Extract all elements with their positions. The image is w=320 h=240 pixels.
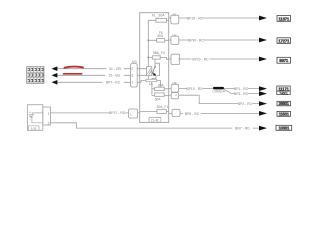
wire BP3-RC branch <box>224 89 259 93</box>
wire BP19-RC row4 <box>179 88 214 90</box>
wire <box>137 69 146 83</box>
arrow out row8 <box>259 126 267 131</box>
svg-text:NE: NE <box>172 33 176 37</box>
svg-text:11831: 11831 <box>279 112 290 117</box>
svg-text:+: + <box>29 111 31 115</box>
svg-text:-: - <box>29 117 30 121</box>
dest box 1727 <box>277 38 291 44</box>
battery G1 plates <box>29 114 34 116</box>
arrow in 1 <box>52 66 58 71</box>
arrow out row2 <box>259 38 267 43</box>
dest box 1117 <box>277 86 290 91</box>
wire <box>157 81 161 87</box>
wire BN7-RD ground run <box>50 123 259 128</box>
arrow out row3 <box>259 57 267 62</box>
svg-text:BP3 - RC: BP3 - RC <box>234 92 249 96</box>
svg-text:1: 1 <box>48 112 50 116</box>
svg-text:FL_30A: FL_30A <box>152 13 165 17</box>
arrow in 2 <box>52 73 58 78</box>
wire bus <box>147 20 149 79</box>
fuse box U1 outline <box>140 13 169 123</box>
arrow out row5 <box>259 91 267 96</box>
fuse F3 <box>155 93 165 96</box>
arrow out row1 <box>259 16 267 21</box>
fuse F4 <box>152 56 160 59</box>
svg-text:3: 3 <box>131 74 133 78</box>
arrow in 3 <box>52 80 58 85</box>
relay K1 arm <box>152 68 155 75</box>
wire battery internal <box>32 113 43 123</box>
svg-text:1: 1 <box>130 113 132 117</box>
pin bracket 1 battery <box>129 109 140 118</box>
wire BP1-RC <box>224 88 259 90</box>
wire BP8-RC row7 <box>180 112 259 114</box>
svg-text:BPW - RC: BPW - RC <box>188 38 204 42</box>
pin bracket 6E row1 <box>169 13 179 24</box>
dest box 1137 <box>277 16 291 22</box>
wire BPW-RC row2 <box>179 39 260 41</box>
wire <box>148 39 168 41</box>
svg-text:2: 2 <box>48 122 50 126</box>
wire <box>148 57 168 59</box>
wire 31-OR <box>57 68 130 70</box>
dest box 2680 <box>277 101 291 106</box>
fuse F2 <box>155 87 165 90</box>
wire relay feed <box>155 59 160 75</box>
label box 1141 <box>149 117 161 122</box>
svg-text:98A_F4: 98A_F4 <box>153 51 165 55</box>
svg-text:BP20 - RC: BP20 - RC <box>192 57 209 61</box>
svg-text:15 - BU: 15 - BU <box>109 74 121 78</box>
svg-text:50A: 50A <box>155 98 162 102</box>
connector strip battery <box>43 107 51 126</box>
dest box 597 <box>277 57 291 63</box>
connector grid X1 <box>27 67 44 84</box>
relay K1 coil <box>147 67 152 76</box>
highlight red wire 1 <box>65 67 84 68</box>
svg-text:COM3-A: COM3-A <box>212 90 225 94</box>
wire relay output <box>152 76 156 96</box>
relay K1 arrow <box>153 72 156 75</box>
dest box 7460 <box>277 91 290 95</box>
wire BP19-RC row1 <box>179 17 259 19</box>
wire <box>152 94 169 96</box>
node J1 <box>148 40 150 42</box>
wire BP17-RD <box>50 112 128 114</box>
svg-text:1: 1 <box>131 81 133 85</box>
svg-text:11371: 11371 <box>278 16 290 21</box>
svg-text:30A_F1: 30A_F1 <box>156 105 168 109</box>
pin bracket row3 <box>169 54 180 64</box>
fuse F5 <box>157 39 165 43</box>
splice COM3-A <box>213 87 224 90</box>
svg-text:17271: 17271 <box>278 39 290 44</box>
svg-text:26801: 26801 <box>279 101 290 106</box>
fuse F7 <box>157 110 166 114</box>
svg-text:BP8 - RC: BP8 - RC <box>185 112 200 116</box>
svg-text:80A: 80A <box>157 34 164 38</box>
dest box 1030 <box>276 125 292 130</box>
svg-text:5971: 5971 <box>279 58 289 63</box>
relay K1 coil stroke <box>148 68 153 75</box>
pin bracket 5E row2 <box>169 33 179 44</box>
wire <box>140 111 169 113</box>
wire <box>152 88 169 90</box>
svg-text:2: 2 <box>131 67 133 71</box>
arrow out row7 <box>259 111 267 116</box>
svg-text:10301: 10301 <box>278 126 290 131</box>
svg-text:74601: 74601 <box>279 91 288 95</box>
wire BP20-RC row3 <box>180 58 259 60</box>
wire <box>148 19 168 21</box>
svg-text:BP19 - RC: BP19 - RC <box>186 87 203 91</box>
svg-text:31 - OR: 31 - OR <box>109 67 121 71</box>
wire 15-BU <box>57 74 130 76</box>
svg-text:BPT - RC: BPT - RC <box>106 81 121 85</box>
svg-text:103: 103 <box>31 127 37 131</box>
wire BP2-RC row6 <box>179 95 260 103</box>
pin bracket row7 <box>169 109 180 116</box>
svg-text:BN7 - RD: BN7 - RD <box>235 127 250 131</box>
dest box 1183 <box>277 111 291 116</box>
label box 103 <box>28 126 39 131</box>
svg-text:6E: 6E <box>173 13 177 17</box>
relay K1 contact <box>154 66 156 68</box>
battery G1 box <box>27 105 42 131</box>
node J2 <box>148 57 150 59</box>
pin bracket NE row4 <box>169 81 179 99</box>
wire BPT-RC <box>57 81 130 83</box>
arrow out row4 <box>259 86 267 91</box>
svg-text:[1-4]: [1-4] <box>152 118 159 122</box>
connector M3 <box>131 60 138 87</box>
arrow out row6 <box>259 101 267 106</box>
highlight red wire 2 <box>64 73 82 75</box>
svg-text:BP1 - RC: BP1 - RC <box>234 87 249 91</box>
svg-text:BP19 - RC: BP19 - RC <box>187 16 204 20</box>
svg-text:NE: NE <box>173 81 177 85</box>
svg-text:BP2 - RC: BP2 - RC <box>238 102 253 106</box>
fuse F6 thin <box>146 79 157 81</box>
svg-text:BP17 - RD: BP17 - RD <box>109 111 126 115</box>
fuse F1 <box>156 18 167 22</box>
